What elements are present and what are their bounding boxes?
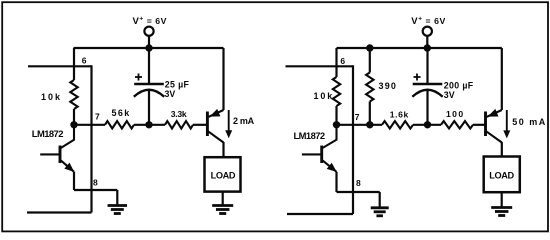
svg-text:390: 390	[379, 81, 398, 91]
svg-text:3V: 3V	[444, 90, 455, 100]
svg-text:7: 7	[95, 111, 100, 121]
svg-text:V+ = 6V: V+ = 6V	[411, 16, 446, 27]
svg-text:56k: 56k	[112, 108, 131, 118]
svg-text:LOAD: LOAD	[489, 170, 514, 180]
svg-text:1.6k: 1.6k	[390, 110, 409, 120]
svg-text:LM1872: LM1872	[294, 130, 325, 141]
svg-text:V+ = 6V: V+ = 6V	[133, 16, 168, 27]
svg-text:8: 8	[356, 178, 361, 188]
svg-text:3.3k: 3.3k	[171, 109, 187, 119]
svg-text:LOAD: LOAD	[211, 170, 236, 180]
svg-text:25 µF: 25 µF	[165, 79, 190, 89]
svg-text:2 mA: 2 mA	[233, 116, 255, 126]
svg-text:10k: 10k	[314, 91, 335, 101]
svg-text:50 mA: 50 mA	[512, 117, 547, 127]
svg-text:200 µF: 200 µF	[444, 80, 474, 90]
svg-text:3V: 3V	[165, 89, 176, 99]
svg-text:LM1872: LM1872	[32, 128, 63, 139]
svg-text:7: 7	[355, 112, 360, 122]
svg-text:6: 6	[82, 56, 87, 66]
svg-text:10k: 10k	[41, 92, 62, 102]
svg-text:100: 100	[446, 109, 465, 119]
svg-text:6: 6	[340, 56, 345, 66]
svg-text:8: 8	[93, 178, 98, 188]
